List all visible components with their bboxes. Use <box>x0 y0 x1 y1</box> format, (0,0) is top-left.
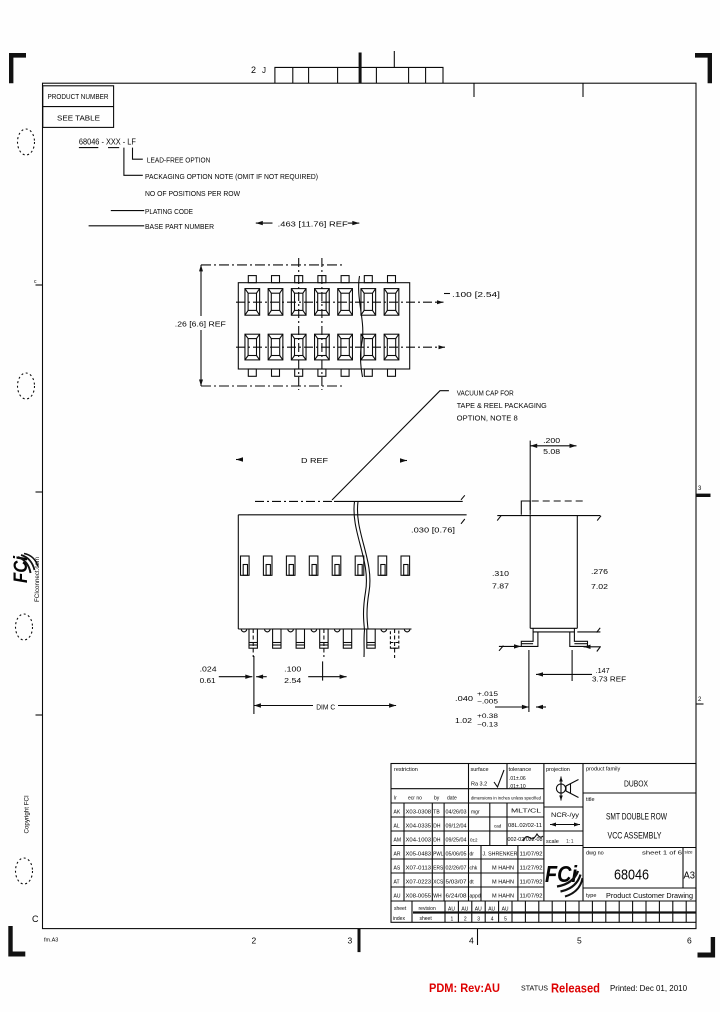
side standoff line <box>533 631 574 633</box>
filing hole 3 <box>16 614 33 640</box>
svg-text:11/07/92: 11/07/92 <box>520 852 543 858</box>
break line front view <box>354 502 366 658</box>
svg-text:restriction: restriction <box>394 767 418 773</box>
svg-text:VCC ASSEMBLY: VCC ASSEMBLY <box>608 831 662 842</box>
centerline vertical col3 <box>298 258 300 390</box>
svg-text:PLATING CODE: PLATING CODE <box>145 207 193 216</box>
svg-text:ecr no: ecr no <box>408 796 422 802</box>
fold-mark thick bar top <box>359 53 362 84</box>
svg-text:fm.A3: fm.A3 <box>44 938 58 944</box>
top view body <box>238 283 409 369</box>
svg-text:5: 5 <box>577 936 582 946</box>
svg-text:STATUS: STATUS <box>521 984 548 993</box>
svg-text:D REF: D REF <box>301 456 329 465</box>
svg-text:3: 3 <box>477 917 480 923</box>
svg-text:.030 [0.76]: .030 [0.76] <box>411 527 455 534</box>
svg-text:AU: AU <box>448 907 455 913</box>
dim .200 <box>530 445 576 447</box>
svg-text:5.08: 5.08 <box>543 449 560 456</box>
svg-text:0±2: 0±2 <box>470 838 478 843</box>
svg-text:appd: appd <box>470 894 481 900</box>
svg-text:A3: A3 <box>684 870 696 882</box>
svg-text:VACUUM CAP FOR: VACUUM CAP FOR <box>457 388 514 397</box>
svg-text:.01±.06: .01±.06 <box>509 776 526 782</box>
svg-text:2.54: 2.54 <box>284 678 301 685</box>
svg-text:09/25/04: 09/25/04 <box>446 838 467 844</box>
svg-text:BASE PART NUMBER: BASE PART NUMBER <box>145 222 215 231</box>
approval rows lower <box>470 852 543 900</box>
svg-text:6/24/08: 6/24/08 <box>446 894 467 900</box>
svg-text:dimensions in inches unless sp: dimensions in inches unless specified <box>471 796 541 802</box>
svg-text:PDM: Rev:AU: PDM: Rev:AU <box>429 981 500 995</box>
fold thick bar bottom <box>358 929 361 953</box>
svg-text:tolerance: tolerance <box>509 767 532 773</box>
svg-text:WH: WH <box>433 894 442 900</box>
corner mark top-left <box>9 53 26 83</box>
smt pin 7 dashed <box>390 629 398 648</box>
extension line left leg <box>528 650 530 712</box>
seating line left <box>499 645 521 647</box>
centerline row B <box>236 346 445 348</box>
svg-text:X08-0055: X08-0055 <box>406 894 432 900</box>
contact column 5 <box>338 276 353 377</box>
svg-text:7.02: 7.02 <box>591 584 608 591</box>
side cap step <box>521 501 530 515</box>
svg-text:AM: AM <box>394 838 402 844</box>
svg-text:index: index <box>393 916 405 922</box>
side leg right <box>570 628 588 646</box>
contact window 8 <box>401 556 410 575</box>
svg-text:AR: AR <box>394 852 401 858</box>
contact column 3 <box>291 276 306 377</box>
svg-text:type: type <box>586 893 596 899</box>
dim .26 ref vertical <box>200 265 202 316</box>
zone tick left y285 <box>36 284 43 286</box>
title block grid <box>391 764 696 923</box>
svg-text:sheet: sheet <box>420 916 433 922</box>
svg-text:dwg no: dwg no <box>586 851 604 857</box>
svg-text:.100: .100 <box>284 667 301 674</box>
svg-text:09/12/04: 09/12/04 <box>446 824 467 830</box>
svg-text:11/07/92: 11/07/92 <box>520 894 543 900</box>
contact column 4 <box>315 276 330 377</box>
svg-text:11/27/92: 11/27/92 <box>520 866 543 872</box>
svg-text:FCIconnect.com: FCIconnect.com <box>34 557 41 602</box>
front body bottom <box>238 628 411 630</box>
svg-text:+.015: +.015 <box>477 691 499 698</box>
svg-text:.040: .040 <box>455 696 473 703</box>
side leg left <box>521 628 538 646</box>
svg-text:3: 3 <box>348 936 353 946</box>
svg-text:0.61: 0.61 <box>200 678 216 685</box>
centerline vertical col4 <box>321 258 323 390</box>
contact window 4 <box>309 556 318 575</box>
svg-text:TAPE & REEL PACKAGING: TAPE & REEL PACKAGING <box>457 401 547 410</box>
svg-text:J. SHRENKER: J. SHRENKER <box>483 852 518 858</box>
svg-text:−.005: −.005 <box>477 699 499 706</box>
svg-text:.310: .310 <box>492 571 509 578</box>
svg-text:AT: AT <box>394 880 400 886</box>
leader plating code <box>111 210 144 212</box>
fold-mark table top <box>275 67 443 83</box>
svg-text:AU: AU <box>502 907 509 913</box>
svg-text:Copyright FCI: Copyright FCI <box>24 795 31 833</box>
svg-text:05/06/05: 05/06/05 <box>446 852 467 858</box>
signature squiggle <box>523 834 543 841</box>
svg-text:revision: revision <box>419 906 436 912</box>
corner mark bottom-right <box>698 937 716 958</box>
index table labels <box>393 906 509 923</box>
svg-text:Product Customer Drawing: Product Customer Drawing <box>606 891 693 900</box>
svg-text:chk: chk <box>470 866 478 872</box>
svg-text:X03-0308: X03-0308 <box>406 810 432 816</box>
vacuum cap note <box>332 391 449 500</box>
svg-text:sheet 1 of 6: sheet 1 of 6 <box>642 851 682 857</box>
svg-text:2: 2 <box>251 65 256 75</box>
svg-text:J: J <box>262 66 266 75</box>
svg-text:1: 1 <box>451 917 454 923</box>
dim DIM C <box>254 705 313 707</box>
svg-text:OPTION, NOTE 8: OPTION, NOTE 8 <box>457 413 518 422</box>
dim .200 extension line <box>529 441 531 510</box>
smt pin 2 <box>273 629 281 648</box>
smt pin 4 <box>320 629 328 648</box>
svg-text:4: 4 <box>491 917 494 923</box>
contact column 2 <box>268 276 283 377</box>
filing hole 2 <box>18 373 35 399</box>
filing hole 4 <box>16 858 33 884</box>
svg-text:dt: dt <box>470 880 475 886</box>
svg-text:SEE TABLE: SEE TABLE <box>57 114 100 123</box>
leader lead-free option <box>133 148 143 160</box>
extension line right leg <box>571 650 573 681</box>
svg-text:11/07/92: 11/07/92 <box>520 880 543 886</box>
svg-text:projection: projection <box>546 767 570 773</box>
contact window 3 <box>286 556 295 575</box>
zone tick top x474 <box>473 83 475 97</box>
leader packaging option <box>124 148 143 176</box>
svg-text:M HAHN: M HAHN <box>492 894 514 900</box>
svg-text:5: 5 <box>504 917 507 923</box>
centerline row A <box>236 301 444 303</box>
svg-text:PWL: PWL <box>433 852 443 858</box>
svg-text:DIM C: DIM C <box>316 703 336 712</box>
seating line right <box>584 646 601 648</box>
side standoff ext right <box>577 631 600 633</box>
drawing border <box>43 83 697 928</box>
svg-text:08L.02/02-11: 08L.02/02-11 <box>508 823 542 829</box>
svg-text:TB: TB <box>433 810 440 816</box>
corner mark bottom-left <box>8 926 25 957</box>
contact window 5 <box>332 556 341 575</box>
svg-text:cad: cad <box>494 824 502 829</box>
svg-text:PACKAGING OPTION NOTE (OMIT IF: PACKAGING OPTION NOTE (OMIT IF NOT REQUI… <box>145 172 318 181</box>
svg-text:LEAD-FREE OPTION: LEAD-FREE OPTION <box>147 156 210 165</box>
svg-text:.276: .276 <box>591 569 608 576</box>
svg-text:AU: AU <box>394 894 401 900</box>
contact column 6 <box>361 276 376 377</box>
svg-text:MLT/CL: MLT/CL <box>511 809 541 815</box>
dim .463 ref <box>256 221 263 225</box>
pin centerline 1 <box>252 629 254 657</box>
svg-text:.100 [2.54]: .100 [2.54] <box>452 292 500 299</box>
svg-text:DUBOX: DUBOX <box>624 780 649 789</box>
revision rows <box>394 810 467 900</box>
contact window 7 <box>378 556 387 575</box>
svg-text:FCi: FCi <box>545 861 578 887</box>
pin centerline 7 <box>394 629 396 658</box>
svg-text:6: 6 <box>687 936 692 946</box>
side flange line <box>497 515 600 517</box>
dim .100 pitch label <box>444 293 450 295</box>
svg-text:NO OF POSITIONS PER ROW: NO OF POSITIONS PER ROW <box>145 189 241 198</box>
smt pin 6 <box>367 629 375 648</box>
svg-text:1:1: 1:1 <box>566 839 574 845</box>
svg-text:4: 4 <box>469 936 474 946</box>
smt pin 1 <box>249 629 257 648</box>
svg-text:NCR-/yy: NCR-/yy <box>551 812 580 819</box>
svg-text:size: size <box>685 850 693 855</box>
dim .040 standoff <box>495 706 529 708</box>
svg-text:5/03/07: 5/03/07 <box>446 880 467 886</box>
break line top view <box>359 276 363 377</box>
svg-text:ERS: ERS <box>433 866 444 872</box>
svg-text:by: by <box>434 796 440 802</box>
svg-text:3.73 REF: 3.73 REF <box>592 677 626 684</box>
zone tick left y715 <box>36 714 43 716</box>
extension line top <box>201 264 345 266</box>
extension line pin1 <box>253 656 255 714</box>
svg-text:AK: AK <box>394 810 401 816</box>
svg-text:AU: AU <box>475 907 482 913</box>
svg-text:date: date <box>447 796 457 802</box>
dim .147 ref <box>536 673 592 675</box>
svg-text:X04-1003: X04-1003 <box>406 838 432 844</box>
svg-text:C: C <box>32 914 39 924</box>
fold-mark thin line top <box>393 51 395 67</box>
svg-text:scale: scale <box>546 839 559 845</box>
svg-text:+0.38: +0.38 <box>477 713 499 720</box>
svg-text:.024: .024 <box>200 667 217 674</box>
fold tick bottom x477 <box>477 929 479 945</box>
FCI logo left margin rotated <box>11 554 38 584</box>
svg-text:X07-0223: X07-0223 <box>406 880 432 886</box>
svg-text:X07-0113: X07-0113 <box>406 866 432 872</box>
corner mark top-right <box>695 53 712 83</box>
svg-text:sheet: sheet <box>394 906 407 912</box>
svg-text:04/26/03: 04/26/03 <box>446 810 467 816</box>
smt pin 5 <box>343 629 351 648</box>
pin centerline 4 <box>323 629 325 657</box>
dim D REF <box>236 457 243 461</box>
svg-text:1.02: 1.02 <box>455 718 472 725</box>
contact column 7 <box>384 276 399 377</box>
svg-text:2: 2 <box>464 917 467 923</box>
zone tick top x583 <box>582 83 584 97</box>
svg-text:X04-0335: X04-0335 <box>406 824 432 830</box>
svg-text:.01±.10: .01±.10 <box>509 784 526 790</box>
front body top line <box>238 514 466 516</box>
extension line bottom <box>201 385 344 387</box>
svg-text:Ra 3.2: Ra 3.2 <box>471 782 487 788</box>
svg-text:mgr: mgr <box>471 810 480 816</box>
svg-text:dr: dr <box>470 852 475 858</box>
side body <box>529 516 531 629</box>
filing hole 1 <box>18 129 35 155</box>
svg-text:product family: product family <box>586 767 620 773</box>
smt pin 3 <box>296 629 304 648</box>
lead bumps at body bottom <box>241 629 410 632</box>
svg-text:AU: AU <box>461 907 468 913</box>
svg-text:2: 2 <box>252 936 257 946</box>
svg-text:Released: Released <box>551 982 600 996</box>
svg-text:.200: .200 <box>543 438 560 445</box>
contact window 2 <box>263 556 272 575</box>
contact column 1 <box>245 276 260 377</box>
product number box <box>43 86 114 128</box>
dim tick body top end <box>461 519 465 524</box>
svg-text:AS: AS <box>394 866 401 872</box>
svg-text:M HAHN: M HAHN <box>492 880 514 886</box>
dim tick cap end <box>461 495 465 500</box>
svg-text:SMT DOUBLE ROW: SMT DOUBLE ROW <box>606 812 667 823</box>
svg-text:68046: 68046 <box>614 867 649 884</box>
contact window 1 <box>241 556 250 575</box>
svg-text:.463 [11.76] REF: .463 [11.76] REF <box>278 220 349 229</box>
svg-text:PRODUCT NUMBER: PRODUCT NUMBER <box>48 92 109 101</box>
side cap top dashed <box>532 500 586 502</box>
zone tick right y704 <box>696 703 704 705</box>
svg-text:.147: .147 <box>596 668 610 675</box>
leader base part number <box>89 225 145 227</box>
svg-text:DH: DH <box>433 824 441 830</box>
svg-text:M HAHN: M HAHN <box>492 866 514 872</box>
svg-text:lr: lr <box>394 796 397 802</box>
front body left edge <box>237 515 239 629</box>
zone tick left y492 <box>36 491 43 493</box>
cap line front view <box>255 500 334 502</box>
zone tick right y495 thick <box>696 494 711 497</box>
svg-text:68046 - XXX - LF: 68046 - XXX - LF <box>79 137 136 147</box>
svg-text:AL: AL <box>394 824 400 830</box>
svg-text:DH: DH <box>433 838 441 844</box>
index separator thick <box>413 911 696 913</box>
svg-text:AU: AU <box>488 907 495 913</box>
svg-text:Printed: Dec 01, 2010: Printed: Dec 01, 2010 <box>610 984 688 993</box>
svg-text:02/26/07: 02/26/07 <box>446 866 467 872</box>
svg-text:X05-0483: X05-0483 <box>406 852 432 858</box>
svg-text:title: title <box>586 797 595 803</box>
svg-text:7.87: 7.87 <box>492 583 509 590</box>
svg-text:.26 [6.6] REF: .26 [6.6] REF <box>175 320 226 329</box>
FCI logo title block <box>545 861 583 897</box>
svg-text:surface: surface <box>471 767 489 773</box>
svg-text:−0.13: −0.13 <box>477 722 499 729</box>
svg-text:XCS: XCS <box>433 880 444 886</box>
contact window 6 <box>355 556 364 575</box>
